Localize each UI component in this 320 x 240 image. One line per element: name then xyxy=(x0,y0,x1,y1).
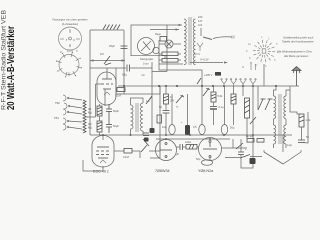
wire jack1 to divider xyxy=(68,98,82,100)
wire r14 down xyxy=(233,104,235,125)
blob cap xyxy=(144,138,149,142)
tube T4 circle xyxy=(156,140,177,161)
tube T5 circle xyxy=(199,138,222,161)
input jack J1 xyxy=(63,95,69,101)
rotary switch tick labels xyxy=(246,35,279,68)
interstage transformer T1 primary xyxy=(131,105,134,129)
wire drop x124 below xyxy=(123,86,125,94)
resistor R5 xyxy=(162,52,178,56)
wire c8 r13 xyxy=(177,146,181,148)
svg-text:TB2: TB2 xyxy=(55,101,60,105)
svg-text:+305 V: +305 V xyxy=(204,73,213,77)
svg-text:µF µF: µF µF xyxy=(246,134,253,138)
resistor R4 right xyxy=(157,115,162,123)
meter box bottom xyxy=(131,55,167,57)
wire row y68 xyxy=(90,67,126,69)
fork F1 xyxy=(221,79,227,86)
capacitor C5 xyxy=(163,111,170,114)
wire power to bus xyxy=(159,64,202,86)
wire top with NTC xyxy=(90,29,124,31)
wire r1r2 xyxy=(99,116,101,121)
gamma arrow 2 xyxy=(265,99,273,110)
V1 cathode xyxy=(103,88,111,90)
tube socket circle S1 xyxy=(59,27,82,50)
resistor R6 xyxy=(162,59,178,63)
paper background xyxy=(0,0,320,178)
wire bottom row y139 xyxy=(156,138,230,140)
T5 pins xyxy=(203,141,217,158)
bus row2 xyxy=(116,93,160,95)
junction dots bottom bus xyxy=(102,134,254,136)
svg-text:10kΩ: 10kΩ xyxy=(185,140,191,144)
svg-text:0,1µ: 0,1µ xyxy=(122,73,128,77)
wire C2 to right xyxy=(130,67,153,69)
svg-text:µF: µF xyxy=(176,152,179,156)
input jack J5 xyxy=(63,124,69,130)
svg-text:Schalterstellung sieh auch: Schalterstellung sieh auch xyxy=(283,36,314,40)
bus right corner xyxy=(289,86,291,110)
fork Y 6,3V xyxy=(197,43,203,51)
svg-text:alle Werte gemessen: alle Werte gemessen xyxy=(284,54,309,58)
mains switch xyxy=(201,28,212,40)
svg-text:10µ: 10µ xyxy=(162,125,167,129)
wire x224 down xyxy=(224,86,226,125)
pentode V2 envelope xyxy=(92,136,114,168)
elco E1 xyxy=(169,125,175,135)
speaker dots xyxy=(263,150,302,152)
input jack J4 xyxy=(63,118,69,124)
wire grid row y60 xyxy=(90,60,125,62)
mains plug xyxy=(232,36,234,39)
wire r12 right xyxy=(132,151,140,158)
capacitor C1 plates xyxy=(121,46,128,49)
T1 secondary xyxy=(141,103,144,131)
elco E5 below T5 xyxy=(202,160,213,166)
wire vertical x124 xyxy=(123,30,125,86)
fork F4 xyxy=(250,79,256,86)
heater wire V2 xyxy=(190,62,223,64)
wire lamp right xyxy=(173,43,181,45)
resistor R9 xyxy=(211,92,216,102)
aux marks above bus xyxy=(251,64,256,70)
V1 heater xyxy=(104,92,110,95)
resistor R3 beside V1 xyxy=(117,88,125,92)
capacitor C4 xyxy=(106,117,112,133)
V1 grid dashes xyxy=(101,83,113,85)
wire lamp left xyxy=(159,43,165,45)
svg-text:50µF: 50µF xyxy=(113,124,119,128)
wire T5 riser xyxy=(232,139,234,148)
wire x243 down xyxy=(242,86,244,96)
wire x177 xyxy=(171,94,173,124)
svg-text:50µ: 50µ xyxy=(196,157,201,161)
speaker V xyxy=(264,152,301,164)
wire x116 xyxy=(115,68,117,94)
wire jack5 to divider xyxy=(68,127,82,129)
potentiometer P1 arrow xyxy=(104,56,111,65)
pot arrow mid xyxy=(141,139,149,152)
wire to T4 xyxy=(149,140,160,151)
svg-text:110: 110 xyxy=(198,23,203,27)
T3 core xyxy=(279,94,281,144)
svg-text:YØ8 N2a: YØ8 N2a xyxy=(198,169,214,173)
wire r2 down xyxy=(99,132,101,135)
svg-text:0,1: 0,1 xyxy=(88,107,92,111)
svg-text:TB1: TB1 xyxy=(54,116,59,120)
T4 pins xyxy=(160,143,172,158)
pot arrow on T1 xyxy=(146,96,152,104)
resistor R8 xyxy=(203,88,210,96)
switch row wire2 xyxy=(250,156,262,158)
T3 prim lower xyxy=(274,125,276,144)
elco E4 xyxy=(221,125,227,135)
svg-text:Klangregler: Klangregler xyxy=(140,57,153,61)
wire under T4 xyxy=(150,157,160,159)
meter box arrow xyxy=(179,24,183,27)
wire r9 top xyxy=(213,86,215,92)
svg-text:50µ: 50µ xyxy=(230,126,235,130)
wire T5 bottom xyxy=(209,157,211,160)
wire V2 top xyxy=(102,135,104,140)
wire node chain xyxy=(99,104,101,106)
svg-text:1M: 1M xyxy=(100,52,104,56)
wire e1 down xyxy=(171,134,173,135)
wire T1 bottom xyxy=(130,129,132,135)
capacitor C8 xyxy=(180,144,183,150)
heater arrow xyxy=(224,61,228,63)
power box bottom xyxy=(159,63,183,65)
bottom bus xyxy=(90,134,292,136)
svg-text:0 cm: 0 cm xyxy=(143,62,149,66)
wire T1 sec bottom xyxy=(142,131,144,135)
elco E2 dark xyxy=(185,125,190,135)
power box left xyxy=(158,40,160,64)
pot arrow run xyxy=(236,143,243,149)
pot arrow x180 xyxy=(176,95,184,103)
capacitor C3 xyxy=(106,104,112,117)
switch row wire xyxy=(225,157,240,159)
mains lead xyxy=(213,37,232,39)
svg-text:Tabelle der Anschlusswerte: Tabelle der Anschlusswerte xyxy=(282,40,314,44)
capacitor C2 plates xyxy=(127,65,130,72)
electrolytic blob xyxy=(150,128,155,133)
junction T4 top xyxy=(165,138,167,140)
svg-text:Fassungen von unten gesehen: Fassungen von unten gesehen xyxy=(53,18,89,22)
svg-text:Lspr.: Lspr. xyxy=(287,143,293,147)
resistor R10 tall xyxy=(245,98,250,118)
triode V1 envelope xyxy=(97,72,116,105)
resistor R2 xyxy=(97,121,102,132)
junction dots on bus xyxy=(123,85,277,87)
wire T1 top xyxy=(131,98,144,105)
main HT bus xyxy=(118,85,299,87)
cap blob xyxy=(215,72,221,76)
svg-text:0,5: 0,5 xyxy=(193,125,197,129)
meter box xyxy=(131,25,182,56)
wire c6 down xyxy=(213,109,215,125)
cap C9 xyxy=(238,152,244,155)
wire jack3 to divider xyxy=(68,112,82,114)
wire T3 sec top xyxy=(286,90,290,96)
resistor R13 xyxy=(186,145,197,150)
T2 core xyxy=(189,17,191,65)
wire right x308 xyxy=(302,112,309,143)
elco E6 xyxy=(250,158,256,164)
wires right loop xyxy=(290,110,302,114)
wire V1 anode up xyxy=(106,68,108,79)
svg-text:220: 220 xyxy=(198,15,203,19)
wire jack2 to divider xyxy=(69,106,82,108)
svg-text:1:8: 1:8 xyxy=(146,99,150,103)
svg-text:5,6k: 5,6k xyxy=(218,94,224,98)
wire x264 down xyxy=(263,64,265,86)
svg-text:ECC 40 z: ECC 40 z xyxy=(93,170,109,174)
wire r9 to c6 xyxy=(213,102,215,107)
svg-text:0,2: 0,2 xyxy=(88,122,92,126)
svg-text:n.F.: n.F. xyxy=(141,73,145,77)
wire left frame vertical xyxy=(89,30,91,135)
wire x152 upper xyxy=(151,62,153,94)
wire grid drop xyxy=(95,84,97,117)
svg-text:MΩ: MΩ xyxy=(88,126,92,130)
svg-text:25µF: 25µF xyxy=(109,44,115,48)
wire x258 down xyxy=(257,86,259,110)
small circle M2 xyxy=(153,47,159,53)
wire bottom right link xyxy=(241,160,253,168)
NTC hatch marks xyxy=(103,25,120,30)
V2 anode xyxy=(97,146,109,148)
resistor R14 xyxy=(231,94,236,104)
svg-text:0,1µ: 0,1µ xyxy=(219,105,225,109)
small cap cluster xyxy=(143,133,149,136)
wire x253 lower xyxy=(252,135,254,158)
T3 sec lower xyxy=(284,125,286,144)
wire x160 section edge xyxy=(159,86,161,158)
wire r7 c5 xyxy=(165,104,167,111)
wire r10 down xyxy=(246,118,248,138)
gamma arrow 1 xyxy=(258,99,266,110)
V2 grids xyxy=(96,151,109,155)
V1 anode xyxy=(102,78,112,80)
tube socket circle S2 xyxy=(58,53,81,76)
wire r8 top xyxy=(201,86,203,125)
capacitor C7 xyxy=(298,140,305,143)
speaker stem xyxy=(282,135,284,152)
svg-text:V² 6,3V: V² 6,3V xyxy=(200,58,209,62)
resistor R7 column xyxy=(164,94,169,104)
resistor R12 xyxy=(124,149,132,154)
wire c9 xyxy=(240,139,242,152)
svg-text:Alle Widerstandswerte in Ohm: Alle Widerstandswerte in Ohm xyxy=(277,50,312,54)
wire T3 bottom xyxy=(273,144,275,148)
svg-text:Regl.: Regl. xyxy=(155,32,161,36)
wire V1 cathode down xyxy=(104,89,106,106)
svg-text:6,3 V: 6,3 V xyxy=(194,52,200,56)
arrowheads row y60 xyxy=(90,59,94,61)
wire x152 vertical xyxy=(151,94,153,128)
wire V2 bottom xyxy=(83,160,103,171)
output transformer T3 prim upper xyxy=(274,96,276,119)
power transformer T2 primary xyxy=(184,19,186,65)
wire T3 sec mid xyxy=(285,119,287,125)
small rect in box xyxy=(160,37,167,42)
wire divider to grid xyxy=(85,116,96,118)
earth umbrella xyxy=(292,67,301,87)
svg-text:20 Watt-A-B-Verstärker: 20 Watt-A-B-Verstärker xyxy=(6,26,17,110)
T1 core xyxy=(136,103,138,132)
divider resistor chain xyxy=(83,100,86,133)
arrow2 xyxy=(176,28,180,31)
fork F3 xyxy=(240,79,246,86)
wire x233 down xyxy=(233,86,235,94)
fork F2 xyxy=(230,79,236,86)
wire y71 xyxy=(152,71,167,73)
junction T5 top xyxy=(209,138,211,140)
wire c5 down xyxy=(165,113,167,135)
V2 cathode xyxy=(98,157,108,159)
wire T3 prim top xyxy=(274,86,277,96)
wire x253 down xyxy=(252,86,254,138)
svg-text:7Ø8W34: 7Ø8W34 xyxy=(155,169,170,173)
svg-text:MΩ: MΩ xyxy=(88,111,92,115)
socket S2 pin dots xyxy=(56,52,82,78)
input jack J2 xyxy=(64,103,70,109)
rotary switch SW1 xyxy=(253,40,275,62)
wire T5 right run xyxy=(222,147,248,149)
wire T3 sec bottom xyxy=(285,144,287,148)
small comp row xyxy=(247,139,264,143)
meter M1 circle xyxy=(138,38,155,55)
svg-text:127: 127 xyxy=(198,19,203,23)
input jack J3 xyxy=(63,109,69,115)
wire R56 right xyxy=(178,54,181,60)
wire V2 right xyxy=(114,150,124,152)
capacitor C6 xyxy=(210,107,217,110)
lamp L1 xyxy=(165,40,173,48)
wire R5 left arrow xyxy=(159,54,162,60)
resistor R11 right xyxy=(299,114,304,127)
T3 sec upper xyxy=(284,96,286,119)
switch lever xyxy=(240,155,250,159)
wire x167 box edge xyxy=(164,25,167,72)
wire T3 mid xyxy=(273,119,275,125)
V2 heater xyxy=(100,160,106,163)
pot arrow R10 xyxy=(250,117,256,124)
wire x166 xyxy=(165,86,167,94)
T2 secondary xyxy=(193,19,195,65)
svg-text:0,1M: 0,1M xyxy=(123,155,129,159)
arrow at 200 xyxy=(197,78,201,84)
elco E3 xyxy=(199,125,205,135)
svg-text:(Lötseite): (Lötseite) xyxy=(62,22,78,26)
wire r11 down xyxy=(301,127,303,140)
svg-text:50µF: 50µF xyxy=(113,109,119,113)
wire jack4 to divider xyxy=(68,121,82,122)
wire x190 xyxy=(187,94,189,125)
wire x160 riser xyxy=(159,86,161,94)
resistor R1 xyxy=(97,106,102,116)
meter box line2 xyxy=(150,29,179,31)
